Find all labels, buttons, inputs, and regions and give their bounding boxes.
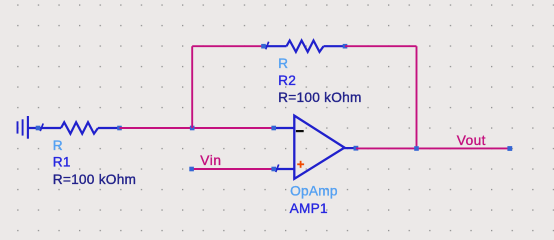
svg-text:OpAmp: OpAmp	[290, 184, 338, 199]
node Vin end	[189, 167, 194, 172]
node Vout end	[507, 146, 512, 151]
svg-text:Vout: Vout	[457, 133, 486, 148]
wire feedback right vertical	[416, 46, 418, 148]
svg-text:R=100 kOhm: R=100 kOhm	[278, 90, 362, 105]
op-amp AMP1	[274, 116, 356, 179]
op-amp minus	[296, 130, 304, 132]
node junction feedback/input	[190, 126, 195, 131]
svg-text:R=100 kOhm: R=100 kOhm	[53, 172, 137, 187]
wire feedback top left	[192, 45, 263, 47]
wire inverting node to op-amp	[192, 127, 274, 129]
node junction output/feedback	[414, 146, 419, 151]
svg-text:AMP1: AMP1	[290, 201, 328, 216]
ground	[18, 116, 28, 139]
wire Vout	[356, 147, 510, 149]
svg-text:Vin: Vin	[200, 153, 221, 168]
wire feedback top right	[345, 45, 417, 47]
pin output	[354, 146, 359, 151]
wire R1 to inverting node	[120, 127, 193, 129]
wire Vin	[192, 168, 274, 170]
op-amp plus	[297, 161, 304, 168]
svg-text:R: R	[53, 138, 63, 153]
pin inverting	[271, 126, 276, 131]
svg-text:R2: R2	[278, 73, 296, 88]
wire feedback left vertical	[191, 46, 193, 128]
resistor R2	[264, 41, 346, 52]
svg-text:R1: R1	[53, 155, 71, 170]
pin non-inverting	[271, 167, 276, 172]
svg-text:R: R	[278, 56, 288, 71]
resistor R1	[28, 122, 120, 133]
